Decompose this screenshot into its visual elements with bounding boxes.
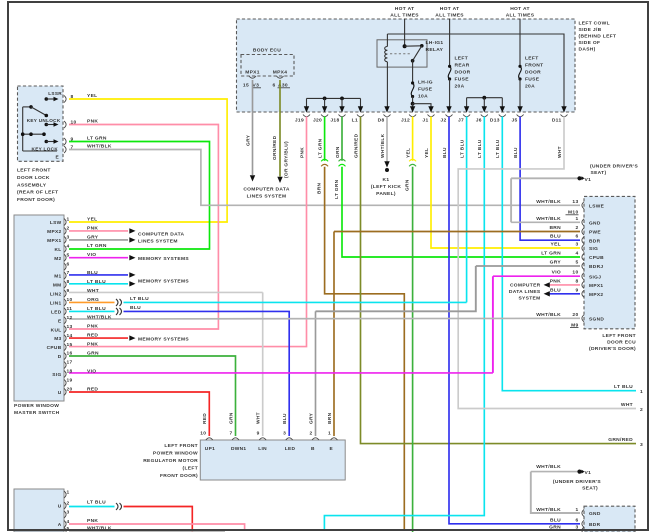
wire PNK MPX2 to computer data (69, 230, 128, 232)
svg-text:LT GRN: LT GRN (317, 138, 323, 158)
svg-text:LSW: LSW (50, 220, 62, 226)
svg-text:J20: J20 (313, 118, 322, 124)
wire PNK ECU MPX1 (547, 284, 580, 286)
wire split to J1 (413, 104, 431, 109)
svg-text:DOOR ECU: DOOR ECU (607, 339, 636, 345)
wire bus stub (483, 98, 485, 109)
svg-text:FRONT DOOR): FRONT DOOR) (17, 197, 55, 203)
wire LT GRN J18 to ECU CPUB (342, 167, 580, 257)
wire relay coil to D8 (386, 62, 388, 109)
svg-text:1: 1 (575, 507, 578, 513)
svg-text:V1: V1 (585, 177, 592, 183)
svg-text:10: 10 (572, 270, 578, 276)
svg-text:V1: V1 (585, 470, 592, 476)
wire LT BLU MM to memory systems (69, 283, 128, 285)
svg-text:B: B (311, 446, 315, 452)
svg-text:WHT/BLK: WHT/BLK (536, 312, 561, 318)
svg-text:3: 3 (575, 242, 578, 248)
pin bracket motor E (331, 438, 338, 440)
svg-text:LT GRN: LT GRN (334, 179, 340, 199)
svg-text:SYSTEM: SYSTEM (518, 296, 540, 302)
svg-text:DATA LINES: DATA LINES (509, 289, 541, 295)
wire PNK bottom switch A off-page (69, 524, 245, 531)
svg-text:20: 20 (67, 386, 73, 392)
svg-text:HOT AT: HOT AT (440, 6, 460, 12)
svg-text:LED: LED (285, 446, 296, 452)
svg-text:MPX1: MPX1 (47, 238, 61, 244)
svg-text:MPX2: MPX2 (47, 229, 61, 235)
svg-text:GRN: GRN (405, 179, 411, 191)
pin bracket motor DWN1 (232, 438, 239, 440)
svg-text:(LEFT KICK: (LEFT KICK (371, 184, 402, 190)
left front door ECU box (584, 196, 635, 328)
contact (45, 140, 49, 144)
svg-text:HOT AT: HOT AT (510, 6, 530, 12)
svg-text:2: 2 (575, 225, 578, 231)
relay box outline U1 LH-IG1 (377, 40, 427, 67)
wire bus stub (466, 98, 468, 109)
pin J6 bracket (481, 115, 488, 117)
relay U1 LH-IG1 internals (385, 47, 388, 62)
svg-text:15: 15 (67, 342, 73, 348)
svg-text:LEFT FRONT: LEFT FRONT (164, 443, 198, 449)
svg-text:LT BLU: LT BLU (87, 306, 106, 312)
wire rear fuse to J2 (449, 79, 451, 109)
svg-text:U: U (58, 504, 62, 510)
svg-text:WHT/BLK: WHT/BLK (380, 133, 386, 158)
pin J5 bracket (517, 115, 524, 117)
svg-text:6: 6 (575, 518, 578, 524)
svg-text:D11: D11 (552, 118, 562, 124)
svg-text:BLU: BLU (282, 413, 288, 424)
svg-text:M1: M1 (54, 274, 61, 280)
junction block: LEFT COWL SIDE J/B (237, 19, 576, 112)
svg-text:LSSR: LSSR (48, 91, 62, 96)
svg-text:SIGJ: SIGJ (589, 274, 601, 280)
ground K1 (385, 168, 389, 172)
svg-text:13: 13 (67, 324, 73, 330)
wire relay coil top to D11 bus (386, 34, 388, 47)
wire LT GRN key lock to switch KL (69, 142, 210, 250)
pin bracket ECU SIGJ (582, 273, 584, 280)
svg-text:LH-IG1: LH-IG1 (426, 40, 444, 46)
svg-text:5: 5 (575, 260, 578, 266)
svg-text:LEFT: LEFT (455, 56, 469, 62)
svg-text:BDR: BDR (589, 238, 601, 244)
svg-text:LT BLU: LT BLU (130, 296, 149, 302)
svg-text:BLU: BLU (550, 287, 561, 293)
svg-text:9: 9 (67, 288, 70, 294)
arrow computer data (277, 177, 282, 183)
svg-text:POWER WINDOW: POWER WINDOW (153, 450, 198, 456)
svg-text:SIG: SIG (52, 372, 61, 378)
svg-text:1: 1 (640, 389, 643, 395)
svg-text:ASSEMBLY: ASSEMBLY (17, 182, 47, 188)
wire bus stub (501, 98, 503, 109)
wire VIO M2 to memory systems (69, 257, 128, 259)
pin bracket bottom switch 5 (64, 528, 66, 532)
pin bracket ECU LSWE (582, 202, 584, 209)
svg-text:LT GRN: LT GRN (87, 136, 107, 142)
svg-text:12: 12 (67, 315, 73, 321)
svg-text:GRN/RED: GRN/RED (608, 437, 633, 443)
pin bracket 7 (64, 146, 66, 153)
pin J6 arrow (482, 106, 487, 112)
power window master switch box (14, 215, 64, 401)
svg-text:3: 3 (67, 509, 70, 515)
svg-text:COMPUTER DATA: COMPUTER DATA (138, 231, 185, 237)
pin bracket bottom ECU 3 (582, 527, 584, 532)
bottom-right ECU box (cut off) (584, 506, 635, 532)
svg-text:LIN1: LIN1 (50, 300, 62, 306)
svg-text:2: 2 (67, 226, 70, 232)
svg-text:LEFT FRONT: LEFT FRONT (602, 333, 636, 339)
svg-text:WHT/BLK: WHT/BLK (536, 464, 561, 470)
svg-text:20: 20 (572, 312, 578, 318)
wire BLU LED to motor LED (124, 311, 290, 436)
svg-text:BRN: BRN (317, 182, 323, 194)
wire GRY from MPX1 (252, 80, 254, 175)
svg-text:9: 9 (257, 430, 260, 436)
wire GRN D to motor DWN1 (69, 356, 236, 436)
wire hot feed to relay (404, 19, 406, 47)
svg-text:15: 15 (243, 83, 249, 89)
wire LT BLU LED (69, 310, 115, 312)
wire YEL door lock LSSR to switch LSW (69, 99, 227, 222)
svg-text:J7: J7 (458, 118, 464, 124)
svg-text:ALL TIMES: ALL TIMES (506, 13, 535, 19)
svg-text:GRY: GRY (246, 134, 252, 146)
pin J1 bracket (428, 115, 435, 117)
node relay feed junction (403, 44, 407, 48)
svg-text:HOT AT: HOT AT (395, 6, 415, 12)
svg-text:18: 18 (67, 369, 73, 375)
svg-text:7: 7 (71, 144, 74, 150)
wire WHT/BLK E to ECU SGND (69, 317, 580, 320)
wire hot feed to left rear door fuse (449, 19, 451, 67)
wire WHT D11 to off-page 2 (458, 117, 636, 409)
svg-text:LEFT: LEFT (525, 56, 539, 62)
svg-text:PNK: PNK (87, 225, 98, 231)
pin bracket switch 4 (64, 245, 66, 252)
svg-text:MPX1: MPX1 (589, 283, 603, 289)
pin bracket motor LIN (259, 438, 266, 440)
wire WHT/BLK bottom ECU GND to V1 (531, 471, 578, 473)
svg-text:CPUB: CPUB (589, 255, 604, 261)
svg-text:BRN: BRN (327, 412, 333, 424)
ground V1 upper (577, 176, 581, 180)
svg-text:J1: J1 (422, 118, 428, 124)
svg-text:17: 17 (67, 360, 73, 366)
svg-text:GRN: GRN (335, 146, 341, 158)
svg-text:WHT: WHT (256, 412, 262, 424)
pin bracket MPX4 (277, 76, 284, 78)
pin L1 arrow (358, 106, 363, 112)
node J12/J1 split (411, 102, 415, 106)
node bus junction (340, 97, 344, 101)
svg-text:DOOR: DOOR (525, 70, 541, 76)
svg-text:LT BLU: LT BLU (477, 139, 483, 158)
connector on J20 wire (321, 159, 328, 161)
svg-text:FUSE: FUSE (525, 77, 540, 83)
svg-text:RELAY: RELAY (426, 47, 444, 53)
svg-text:WHT: WHT (621, 402, 633, 408)
svg-text:10A: 10A (418, 94, 428, 100)
svg-text:YEL: YEL (424, 148, 430, 158)
svg-text:LT BLU: LT BLU (87, 279, 106, 285)
svg-text:DOOR LOCK: DOOR LOCK (17, 175, 50, 181)
pin bracket switch 14 (64, 335, 66, 342)
svg-text:SIDE OF: SIDE OF (579, 40, 601, 46)
wire VIO ECU SIGJ (493, 275, 580, 277)
svg-text:(DRIVER'S DOOR): (DRIVER'S DOOR) (589, 346, 636, 352)
wire internal bus (22, 107, 24, 151)
pin bracket switch 6 (64, 263, 66, 270)
pin bracket ECU SIG (582, 245, 584, 252)
pin J20 bracket (321, 115, 328, 117)
pin bracket switch 20 (64, 388, 66, 395)
svg-text:BLU: BLU (513, 147, 519, 158)
svg-text:7: 7 (229, 430, 232, 436)
window regulator motor box (200, 440, 345, 480)
svg-text:COMPUTER DATA: COMPUTER DATA (243, 187, 290, 193)
connector on LIN1 wire (116, 299, 122, 306)
svg-text:YEL: YEL (87, 216, 97, 222)
contact (45, 114, 49, 118)
arrow memory systems (129, 281, 135, 286)
wire to D11 (387, 34, 564, 109)
pin bracket ECU PWE (582, 228, 584, 235)
fuse F3 LEFT FRONT DOOR 20A (518, 65, 521, 68)
svg-text:BLU: BLU (442, 147, 448, 158)
node bus junction (323, 97, 327, 101)
wire bus stub (341, 98, 343, 109)
svg-text:BLU: BLU (130, 305, 141, 311)
pin D8 bracket (384, 115, 391, 117)
wire LT BLU J7 down to LIN1 line (466, 117, 468, 303)
arrow computer data (129, 237, 135, 242)
svg-text:KUL: KUL (51, 327, 62, 333)
svg-text:KEY UNLOCK: KEY UNLOCK (27, 118, 61, 123)
svg-text:20A: 20A (525, 84, 535, 90)
svg-text:YEL: YEL (87, 93, 97, 99)
svg-text:LIN: LIN (258, 446, 267, 452)
wire relay output to LH-IG fuse (412, 61, 414, 83)
arrow memory systems (129, 272, 135, 277)
svg-text:UP1: UP1 (205, 446, 215, 452)
connector on J12 wire (409, 159, 416, 161)
svg-text:M3: M3 (54, 336, 61, 342)
pin J18 bracket (339, 115, 346, 117)
svg-text:SEAT): SEAT) (591, 170, 607, 176)
pin J2 bracket (446, 115, 453, 117)
svg-text:J18: J18 (330, 118, 339, 124)
wire BLU M1 to memory systems (69, 274, 128, 276)
node bus junction (482, 96, 486, 100)
svg-text:3: 3 (67, 234, 70, 240)
svg-text:MPX2: MPX2 (589, 292, 603, 298)
svg-text:MEMORY SYSTEMS: MEMORY SYSTEMS (138, 256, 189, 262)
pin bracket switch 7 (64, 272, 66, 279)
wire RED U to motor UP1 (69, 392, 209, 436)
pin bracket ECU MPX1 (582, 281, 584, 288)
svg-text:2: 2 (309, 430, 312, 436)
svg-text:YEL: YEL (405, 148, 411, 158)
svg-text:13: 13 (572, 199, 578, 205)
svg-text:FRONT DOOR): FRONT DOOR) (160, 473, 198, 479)
svg-text:E: E (58, 318, 62, 324)
svg-text:9: 9 (71, 136, 74, 142)
svg-text:D13: D13 (490, 118, 500, 124)
svg-text:PNK: PNK (87, 119, 98, 125)
node bus J7/J6/D13 (467, 97, 503, 99)
wire GRY ECU BDRJ (476, 265, 580, 267)
svg-text:2: 2 (67, 500, 70, 506)
pin bracket switch 3 (64, 236, 66, 243)
arrow memory systems (129, 335, 135, 340)
pin bracket switch 17 (64, 362, 66, 369)
pin bracket bottom switch 2 (64, 502, 66, 509)
pin J19 arrow (304, 106, 309, 112)
pin D8 arrow (384, 106, 389, 112)
svg-text:8: 8 (67, 279, 70, 285)
pin bracket bottom ECU GND (582, 510, 584, 517)
pin D11 arrow (561, 106, 566, 112)
svg-text:20A: 20A (455, 84, 465, 90)
svg-text:DWN1: DWN1 (231, 446, 246, 452)
svg-text:J19: J19 (295, 118, 304, 124)
pin bracket ECU BDR (582, 237, 584, 244)
wire bus stub (324, 98, 326, 109)
arrow into K1 (384, 161, 389, 167)
svg-text:LT GRN: LT GRN (87, 243, 107, 249)
svg-text:GND: GND (589, 221, 601, 227)
svg-text:LED: LED (51, 309, 62, 315)
wire hot feed to left front door fuse (519, 19, 521, 67)
pin bracket switch 11 (64, 308, 66, 315)
svg-text:3: 3 (640, 442, 643, 448)
svg-text:VIO: VIO (87, 368, 96, 374)
wire bus stub (306, 98, 308, 109)
svg-text:WHT/BLK: WHT/BLK (87, 144, 112, 150)
svg-text:(LEFT: (LEFT (183, 465, 198, 471)
svg-text:8: 8 (575, 278, 578, 284)
wire RED M3 to memory systems (69, 337, 128, 339)
arrow computer data MPX1 (544, 282, 550, 287)
svg-text:LH-IG: LH-IG (418, 80, 433, 86)
svg-text:BLU: BLU (87, 270, 98, 276)
svg-text:E: E (330, 446, 334, 452)
pin bracket switch 2 (64, 227, 66, 234)
pin bracket bottom switch 1 (64, 491, 66, 498)
svg-text:BLU: BLU (550, 234, 561, 240)
svg-text:FUSE: FUSE (418, 87, 433, 93)
svg-text:6: 6 (272, 83, 275, 89)
pin J12 arrow (410, 106, 415, 112)
pin J12 bracket (409, 115, 416, 117)
svg-text:4: 4 (67, 243, 70, 249)
svg-text:MEMORY SYSTEMS: MEMORY SYSTEMS (138, 337, 189, 343)
pin bracket switch 9 (64, 290, 66, 297)
svg-text:1: 1 (575, 216, 578, 222)
svg-text:11: 11 (67, 306, 73, 312)
svg-text:RED: RED (87, 386, 98, 392)
wire front fuse to J5 (519, 79, 521, 109)
svg-text:1: 1 (328, 430, 331, 436)
svg-text:3: 3 (283, 430, 286, 436)
svg-text:PNK: PNK (299, 147, 305, 158)
relay switch blade (413, 46, 422, 61)
wire LT BLU LIN1 to J7 (124, 301, 467, 303)
pin bracket switch 8 (64, 281, 66, 288)
svg-text:WHT/BLK: WHT/BLK (536, 216, 561, 222)
wire BRN motor E to ECU PWE (334, 231, 580, 233)
svg-text:10: 10 (71, 119, 77, 125)
svg-text:PNK: PNK (87, 518, 98, 524)
wire ORG LIN1 (69, 301, 115, 303)
svg-text:SIG: SIG (589, 246, 598, 252)
relay contact upper (420, 44, 424, 48)
svg-text:K1: K1 (383, 177, 390, 183)
svg-text:LEFT COWL: LEFT COWL (579, 21, 610, 27)
svg-text:KL: KL (54, 247, 61, 253)
wire LT GRN J20 upper (324, 117, 326, 161)
svg-text:D8: D8 (378, 118, 385, 124)
arrow computer data (250, 175, 255, 181)
svg-text:M2: M2 (54, 256, 61, 262)
svg-text:GRY: GRY (550, 260, 562, 266)
wire GRN J12 off-page bottom (412, 167, 414, 532)
pin bracket switch 1 (64, 219, 66, 226)
svg-text:GRY: GRY (87, 234, 99, 240)
wire WHT LIN2 (69, 291, 263, 293)
svg-text:ALL TIMES: ALL TIMES (435, 13, 464, 19)
svg-text:POWER WINDOW: POWER WINDOW (14, 403, 59, 409)
svg-text:PNK: PNK (87, 342, 98, 348)
wire BLU ECU MPX2 (547, 293, 580, 295)
pin J1 arrow (428, 106, 433, 112)
pin bracket 10 (64, 121, 66, 128)
svg-text:DASH): DASH) (579, 47, 596, 53)
svg-text:J2: J2 (440, 118, 446, 124)
wire GRN/RED from MPX4 (279, 80, 281, 177)
arrow computer data (129, 228, 135, 233)
arrow memory systems (129, 255, 135, 260)
pin L1 bracket (357, 115, 364, 117)
connector on bottom U wire (116, 503, 122, 510)
pin J7 arrow (464, 106, 469, 112)
wire VIO SIG to ECU SIGJ (69, 372, 493, 374)
pin bracket bottom ECU BDR (582, 520, 584, 527)
svg-text:U: U (58, 390, 62, 396)
wire GRY MPX1 to computer data (69, 239, 128, 241)
svg-text:LT BLU: LT BLU (495, 139, 501, 158)
svg-text:GND: GND (589, 511, 601, 517)
wire internal to E pin (23, 150, 57, 152)
svg-text:YEL: YEL (551, 242, 561, 248)
svg-text:GRY: GRY (308, 412, 314, 424)
svg-text:DOOR: DOOR (455, 70, 471, 76)
wire to relay contact (405, 45, 422, 47)
pin bracket switch 5 (64, 254, 66, 261)
svg-text:FRONT: FRONT (525, 63, 543, 69)
svg-text:LEFT FRONT: LEFT FRONT (17, 168, 51, 174)
svg-text:WHT/BLK: WHT/BLK (87, 315, 112, 321)
svg-text:LINES SYSTEM: LINES SYSTEM (247, 194, 287, 200)
svg-text:SEAT): SEAT) (582, 485, 598, 491)
pin J5 arrow (517, 106, 522, 112)
svg-text:6: 6 (575, 234, 578, 240)
